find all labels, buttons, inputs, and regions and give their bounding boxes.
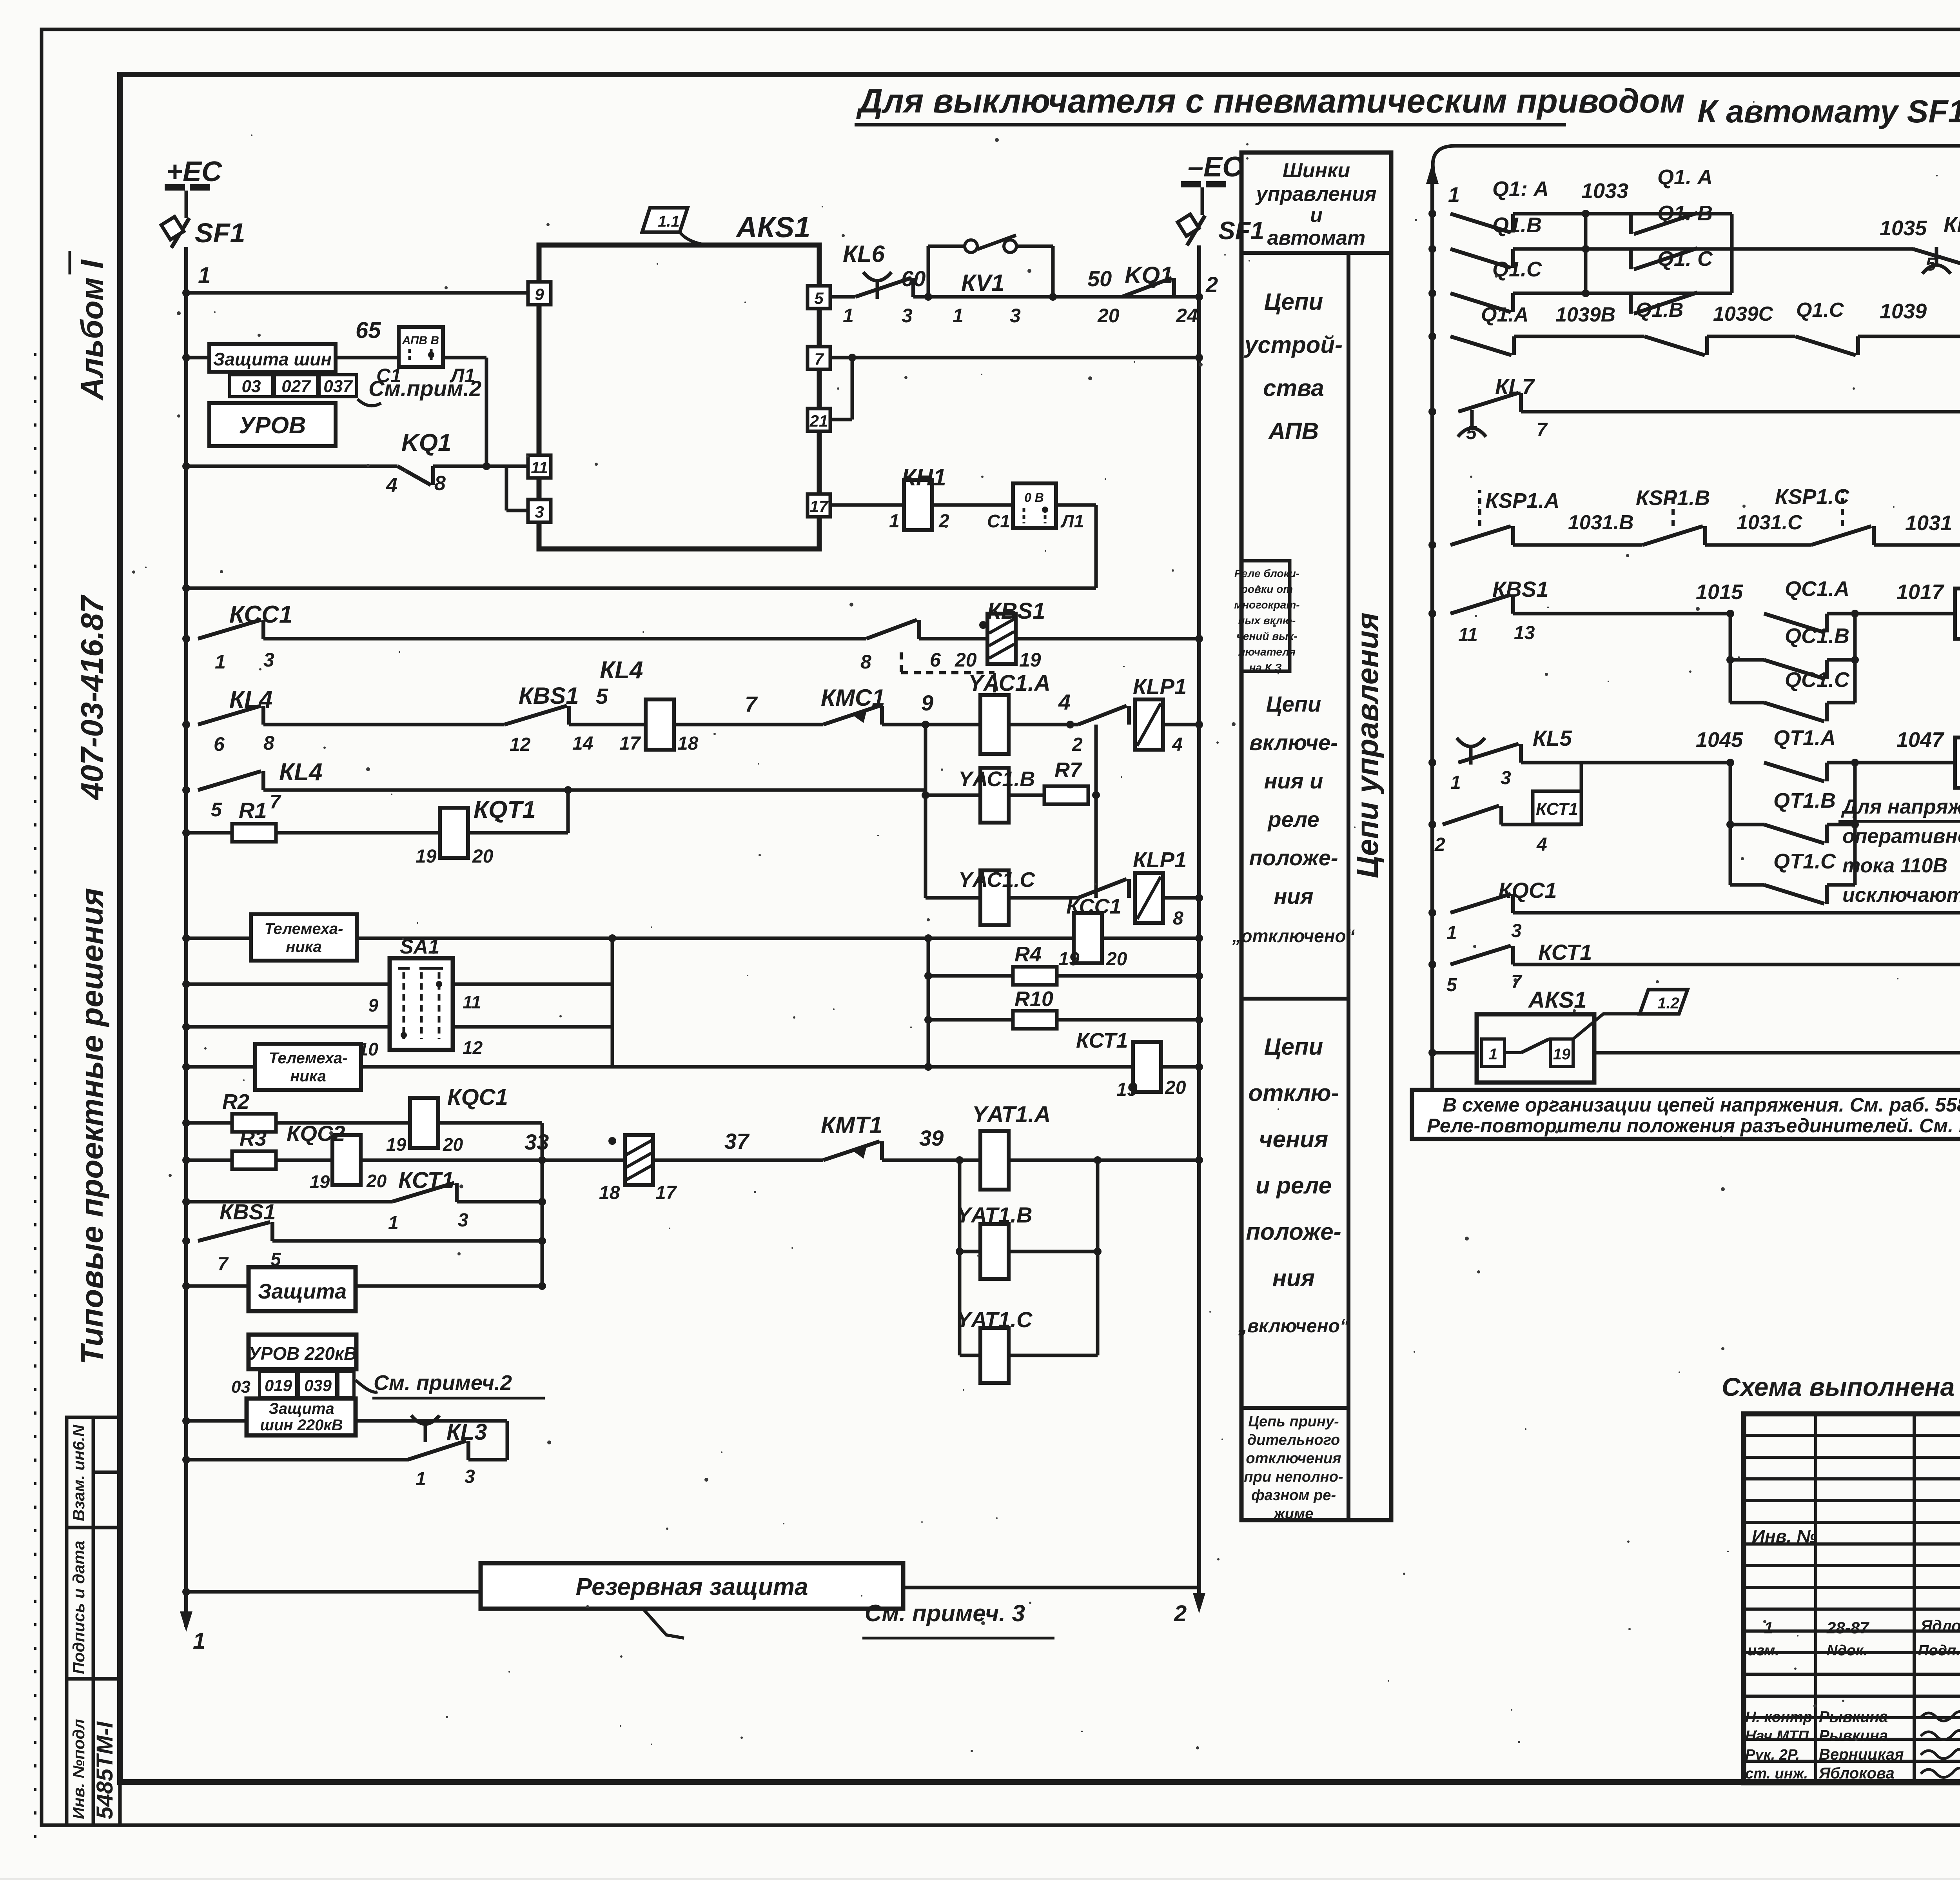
svg-text:Реле блоки-: Реле блоки- <box>1234 567 1299 579</box>
wire 1031 to KLP1 coil <box>1874 543 1960 547</box>
svg-text:реле: реле <box>1267 807 1319 832</box>
contact Q1.B second <box>1631 248 1697 269</box>
svg-text:1: 1 <box>953 305 964 327</box>
svg-text:QС1.С: QС1.С <box>1785 668 1850 692</box>
svg-text:при неполно-: при неполно- <box>1244 1469 1343 1485</box>
signature squiggle 1 <box>1921 1711 1960 1721</box>
closing electromagnet YAC1.C coil <box>980 870 1009 925</box>
AKS1 left pin 11 <box>528 455 551 478</box>
svg-text:1: 1 <box>416 1469 426 1489</box>
branch QC1.B right <box>1827 658 1855 662</box>
contact KSP1.A <box>1450 526 1513 545</box>
svg-text:КВS1: КВS1 <box>220 1199 276 1224</box>
svg-text:2: 2 <box>1205 272 1218 297</box>
svg-text:Q1.В: Q1.В <box>1492 213 1542 237</box>
node rail2015/R1 riser <box>564 786 572 794</box>
tripping electromagnet YAT1.C coil <box>980 1328 1009 1383</box>
-EC bus bottom arrow <box>1193 1593 1205 1613</box>
+EC bus bottom arrow <box>180 1611 192 1632</box>
svg-text:60: 60 <box>901 266 926 291</box>
svg-text:SF1: SF1 <box>195 218 245 248</box>
pressure lock KLP1 coil second <box>1135 873 1163 923</box>
svg-text:С1: С1 <box>376 365 401 387</box>
contact KL7 time <box>1458 393 1521 412</box>
wire rail 3165 <box>272 1239 542 1243</box>
contact QC1.C <box>1764 703 1827 721</box>
branch rail YAT1.C left <box>960 1354 981 1357</box>
wire R2 to KQC1 <box>276 1121 410 1125</box>
node R10 on bus <box>1195 1016 1203 1024</box>
svg-text:5: 5 <box>814 289 824 307</box>
svg-text:21: 21 <box>809 412 828 430</box>
wire to KL4 coil <box>569 723 647 727</box>
svg-text:КL4: КL4 <box>600 657 643 684</box>
divider above Цепь принудительного <box>1241 1406 1348 1410</box>
wire to AKS1 pin 3 <box>506 509 527 512</box>
svg-text:0 В: 0 В <box>1024 490 1044 505</box>
svg-text:11: 11 <box>1458 625 1478 645</box>
svg-text:Альбом I: Альбом I <box>74 259 109 401</box>
svg-text:KQ1: KQ1 <box>1125 262 1173 288</box>
wire pin21 jog <box>830 418 852 421</box>
svg-text:КL3: КL3 <box>446 1419 487 1445</box>
svg-text:1: 1 <box>215 651 226 673</box>
svg-text:и: и <box>1310 204 1323 227</box>
branch rail YAC1.C left <box>926 896 981 900</box>
resistor R4 <box>1013 967 1057 985</box>
svg-text:Телемеха-: Телемеха- <box>269 1050 348 1067</box>
riser QT1 left <box>1729 763 1732 885</box>
wire KCT1 contact to riser <box>457 1200 542 1204</box>
svg-text:R3: R3 <box>240 1127 267 1150</box>
svg-text:фазном ре-: фазном ре- <box>1251 1487 1336 1504</box>
test block SX3 <box>399 327 443 367</box>
wire SX1 loop down <box>1094 505 1098 588</box>
box УРОВ 220кВ <box>249 1335 356 1369</box>
wire rail to AKS1 pin 9 <box>186 291 528 295</box>
svg-text:ст. инж.: ст. инж. <box>1745 1766 1808 1782</box>
flag 1.1 <box>642 208 717 246</box>
underline note 110V <box>1838 820 1960 823</box>
svg-text:КSР1.С: КSР1.С <box>1775 485 1849 509</box>
svg-text:Для напряжения: Для напряжения <box>1841 796 1960 818</box>
wire 1047 <box>1855 761 1956 765</box>
svg-text:ства: ства <box>1263 375 1324 401</box>
svg-text:1: 1 <box>843 305 854 327</box>
branch rail YAC1.B left <box>926 794 981 797</box>
svg-text:QС1.А: QС1.А <box>1785 577 1849 601</box>
wire 1039 part1 <box>1514 335 1644 338</box>
wire 1031.B <box>1513 543 1642 547</box>
svg-text:Q1.В: Q1.В <box>1636 299 1683 322</box>
wire bus to R2 <box>186 1121 232 1125</box>
wire pin21 riser <box>851 358 854 420</box>
wire 1017 <box>1855 612 1956 616</box>
KL5 cup symbol <box>1457 738 1485 765</box>
svg-text:исключаются: исключаются <box>1842 884 1960 906</box>
KL6 time-delay symbol <box>863 272 891 299</box>
svg-text:17: 17 <box>655 1182 677 1203</box>
svg-text:на К.З.: на К.З. <box>1249 661 1285 674</box>
node riser on rail 2959 <box>538 1156 546 1164</box>
svg-text:В схеме организации цепей: В схеме организации цепей напряжения. См… <box>1443 1094 1960 1116</box>
title block grid <box>1744 1414 1960 1783</box>
svg-text:ния: ния <box>1274 884 1313 908</box>
svg-text:Q1.А: Q1.А <box>1481 303 1528 326</box>
svg-text:–ЕС: –ЕС <box>1188 151 1243 183</box>
svg-text:1.2: 1.2 <box>1657 995 1679 1012</box>
svg-text:КМС1: КМС1 <box>821 685 885 711</box>
control switch SA1 <box>390 958 453 1050</box>
closing electromagnet YAC1.A coil <box>980 695 1009 754</box>
resistor R10 <box>1013 1011 1057 1029</box>
svg-text:дительного: дительного <box>1247 1432 1340 1448</box>
svg-text:YАС1.С: YАС1.С <box>958 868 1035 892</box>
test block SX1 <box>1013 483 1056 528</box>
contact Q1.A row1 <box>1450 214 1513 233</box>
svg-text:R1: R1 <box>239 798 267 823</box>
svg-text:18: 18 <box>599 1182 620 1203</box>
svg-text:Для выключателя с пневмати: Для выключателя с пневматическим приводо… <box>856 82 1685 120</box>
svg-text:Схема выполнена на листах: Схема выполнена на листах 39,40,41,42,43… <box>1722 1372 1960 1401</box>
SX3 inner pins <box>408 349 411 363</box>
svg-text:шин 220кВ: шин 220кВ <box>260 1417 343 1434</box>
title block outline <box>1744 1414 1960 1783</box>
svg-text:С1: С1 <box>987 511 1010 531</box>
svg-text:20: 20 <box>955 649 977 671</box>
svg-text:Резервная защита: Резервная защита <box>576 1573 808 1600</box>
svg-text:АКS1: АКS1 <box>1528 987 1586 1013</box>
svg-text:См. примеч. 3: См. примеч. 3 <box>865 1600 1025 1626</box>
svg-text:Инв. №подл: Инв. №подл <box>69 1719 88 1819</box>
contact Q1.C row3 <box>1450 293 1513 312</box>
branch QC1.C left <box>1730 701 1764 705</box>
svg-text:3: 3 <box>1010 305 1021 327</box>
branch rail YAT1.B right <box>1009 1250 1098 1253</box>
signal relay KCC1 coil <box>1074 913 1102 963</box>
svg-text:SА1: SА1 <box>400 935 439 958</box>
leader from 037 to note <box>358 399 381 406</box>
wire KCT1 branch <box>1501 823 1581 826</box>
svg-text:Ядлов: Ядлов <box>1920 1617 1960 1635</box>
blocking relay KBS1 coil 18-17 <box>625 1135 653 1185</box>
svg-text:5485ТМ-I: 5485ТМ-I <box>92 1721 118 1819</box>
svg-text:Рывкина: Рывкина <box>1819 1708 1888 1726</box>
svg-text:Q1.С: Q1.С <box>1492 258 1542 281</box>
wire bus to AKS1 repeater box <box>1432 1051 1477 1055</box>
wire bus to Защита шин box <box>186 356 209 360</box>
svg-text:Л1: Л1 <box>450 365 475 387</box>
svg-text:1031.В: 1031.В <box>1568 511 1634 534</box>
wire to YAC1.A <box>882 723 981 727</box>
wire bus to R1 <box>186 831 232 835</box>
wire Резервная защита to -EC bus <box>903 1586 1199 1589</box>
svg-text:включе-: включе- <box>1249 730 1338 755</box>
left perforation dash line <box>34 353 36 1843</box>
signature squiggle 4 <box>1921 1768 1960 1777</box>
branch riser left YAC group <box>924 725 927 898</box>
svg-text:Л1: Л1 <box>1060 511 1084 531</box>
contact QC1.B <box>1764 660 1827 679</box>
wire YAT1.A to bus <box>1009 1159 1199 1162</box>
svg-text:ника: ника <box>286 938 322 955</box>
relay coil KQT1 <box>440 808 468 858</box>
tripping electromagnet YAT1.B coil <box>980 1224 1009 1279</box>
right-half left bus with arrow <box>1430 172 1434 1090</box>
svg-text:1035: 1035 <box>1880 216 1927 240</box>
svg-text:5: 5 <box>1926 254 1936 275</box>
middle column inner vertical divider <box>1347 253 1350 1520</box>
breaker SF1 (left) <box>161 217 189 248</box>
svg-text:1031: 1031 <box>1905 511 1952 535</box>
svg-text:8: 8 <box>263 732 274 754</box>
AKS1 right pin 7 <box>808 347 830 369</box>
box Защита шин <box>209 344 336 372</box>
contact KBS1 (11-13) <box>1450 595 1513 614</box>
svg-text:1: 1 <box>1448 183 1460 207</box>
contact inside AKS1 box <box>1521 1039 1549 1053</box>
wire bus to KCT1 contact <box>186 1200 392 1204</box>
wire to R4 <box>928 974 1013 978</box>
svg-text:1: 1 <box>193 1628 205 1654</box>
branch QT1.C left <box>1730 883 1764 887</box>
wire R3 to KQC2 <box>276 1159 332 1162</box>
dashed link horizontal <box>901 671 995 674</box>
svg-text:11: 11 <box>463 992 481 1012</box>
pressure lock KLP1 coil <box>1135 699 1163 750</box>
svg-text:17: 17 <box>810 497 829 516</box>
KL7 cup symbol below <box>1458 410 1486 437</box>
svg-text:20: 20 <box>1097 305 1120 327</box>
node riser bottom <box>538 1282 546 1290</box>
svg-text:4: 4 <box>386 474 397 497</box>
svg-text:КН1: КН1 <box>902 464 946 490</box>
contact KCC1 <box>198 620 263 639</box>
contact KL5 time <box>1458 744 1521 763</box>
branch QC1.B left <box>1730 658 1764 662</box>
AKS1 right pin 21 <box>808 409 830 431</box>
node 1015 <box>1726 610 1734 618</box>
bracket line left part to К автомату SF1 <box>1433 146 1901 172</box>
contact KL4 (5-7) <box>198 771 263 790</box>
node SA1 riser on 2393 <box>608 934 616 942</box>
svg-text:50: 50 <box>1087 266 1112 291</box>
svg-text:КQС2: КQС2 <box>287 1121 345 1146</box>
svg-text:19: 19 <box>1116 1079 1138 1100</box>
underline note 2 <box>372 1397 545 1400</box>
wire QT1.A right <box>1827 761 1855 765</box>
svg-text:КSР1.А: КSР1.А <box>1485 489 1559 512</box>
svg-text:См. примеч.2: См. примеч.2 <box>374 1371 512 1395</box>
svg-text:КL7: КL7 <box>1495 374 1535 399</box>
wire Л1 down to KQ1 rail <box>485 358 488 465</box>
wire to 1045 <box>1521 761 1730 765</box>
svg-text:КSР1.В: КSР1.В <box>1636 486 1710 510</box>
contact KSP1.C <box>1811 526 1874 545</box>
svg-text:чений вык-: чений вык- <box>1236 630 1297 642</box>
box Резервная защита <box>481 1563 903 1609</box>
svg-text:3: 3 <box>902 305 913 327</box>
svg-text:чения: чения <box>1259 1126 1328 1152</box>
dot at KBS1 coil <box>979 621 987 629</box>
svg-text:АКS1: АКS1 <box>735 211 810 243</box>
node R10 riser on 2721 <box>924 1063 932 1071</box>
note box В схеме организации <box>1412 1090 1960 1139</box>
svg-text:1039: 1039 <box>1880 300 1927 323</box>
wire rail 1629 left part <box>263 637 866 641</box>
svg-text:КСТ1: КСТ1 <box>1538 940 1592 965</box>
svg-text:3: 3 <box>1511 921 1522 941</box>
contact Q1.C second <box>1631 292 1697 314</box>
resistor R1 <box>232 824 276 842</box>
+EC battery bars <box>165 184 185 191</box>
wire +EC to SF1 <box>185 191 188 218</box>
resistor R3 <box>232 1151 276 1169</box>
svg-text:3: 3 <box>1501 768 1511 788</box>
wire to R10 <box>928 1018 1013 1022</box>
AKS1 left pin 3 <box>528 500 551 522</box>
node junction Л1/KQ1 rail <box>483 462 490 470</box>
wire R10 to bus <box>1057 1018 1199 1022</box>
svg-text:1: 1 <box>1489 1046 1497 1063</box>
svg-text:1015: 1015 <box>1696 580 1743 604</box>
svg-text:24: 24 <box>1176 305 1198 327</box>
wire -EC stub <box>1201 187 1204 215</box>
svg-text:KQ1: KQ1 <box>401 429 451 456</box>
wire return rail 1500 <box>186 587 1096 590</box>
wire bus to Резервная защита <box>186 1590 481 1594</box>
contact Q1.C on 1039 rail <box>1795 336 1858 355</box>
contact KQC1 (1-3) <box>1450 894 1513 913</box>
underline note 3 <box>862 1637 1054 1640</box>
wire KQC2 to KBS1 coil <box>361 1159 624 1162</box>
boxed label KCT1 <box>1533 791 1581 824</box>
contact KQ1 (4-8) <box>397 466 433 485</box>
svg-text:+ЕС: +ЕС <box>166 156 222 187</box>
wire rail 3280 <box>186 1284 542 1288</box>
svg-text:Инв. №: Инв. № <box>1752 1526 1817 1546</box>
contact KCT1 (1-3) <box>392 1183 457 1202</box>
wire rail 1848 part1 <box>263 723 505 727</box>
wire SA1 top to riser <box>453 983 612 986</box>
svg-text:положе-: положе- <box>1246 1219 1341 1245</box>
wire KLP1 second to bus <box>1163 896 1199 900</box>
branch QT1.C right <box>1827 883 1855 887</box>
svg-text:20: 20 <box>366 1171 387 1191</box>
svg-text:28-87: 28-87 <box>1826 1618 1869 1637</box>
svg-text:YАТ1.А: YАТ1.А <box>972 1102 1051 1127</box>
breaker SF1 (right) <box>1178 214 1205 245</box>
svg-text:оперативного: оперативного <box>1842 825 1960 848</box>
svg-text:1: 1 <box>388 1213 399 1233</box>
-EC battery bars <box>1181 181 1201 187</box>
node right YAT riser <box>1094 1156 1102 1164</box>
svg-text:20: 20 <box>1165 1077 1186 1098</box>
svg-text:2: 2 <box>1174 1601 1187 1626</box>
svg-text:5: 5 <box>1466 423 1477 443</box>
divider below Шинки box <box>1241 251 1391 255</box>
wire KL4 coil to KMC1 contact <box>674 723 823 727</box>
contact KBS1 (7-5) <box>198 1222 272 1241</box>
svg-text:7: 7 <box>745 692 758 716</box>
AKS1 left pin 9 <box>528 282 551 305</box>
svg-text:КСТ1: КСТ1 <box>398 1168 454 1193</box>
contact KSP1.B <box>1642 526 1705 545</box>
wire KQT1 to riser <box>468 831 568 835</box>
-EC vertical bus <box>1197 245 1201 1608</box>
wire rail 2393 Телемеханика-1 <box>186 937 1199 940</box>
dashed stem KSP1.C <box>1841 490 1844 526</box>
node 1045 <box>1726 759 1734 767</box>
contact KL6 time <box>1913 249 1960 268</box>
wire pin7 rail to -EC bus <box>830 356 1199 360</box>
svg-text:и реле: и реле <box>1256 1172 1332 1199</box>
svg-text:Реле-повторители положения р: Реле-повторители положения разъединителе… <box>1427 1115 1960 1137</box>
wire Защита шин 220кВ to riser <box>356 1419 507 1423</box>
svg-text:1045: 1045 <box>1696 728 1743 752</box>
node rail757 on -EC bus <box>1195 293 1203 301</box>
svg-text:Подп.: Подп. <box>1918 1642 1960 1659</box>
underline of I in Альбом I (rotated) <box>69 251 71 274</box>
wire KH1 to SX1 <box>932 503 1013 507</box>
svg-text:Q1. В: Q1. В <box>1657 202 1713 225</box>
signature squiggle 3 <box>1921 1749 1960 1758</box>
+EC vertical bus <box>184 247 188 1627</box>
svg-text:„включено“: „включено“ <box>1238 1316 1349 1337</box>
svg-text:039: 039 <box>304 1376 332 1395</box>
AKS1 right pin 17 <box>808 494 830 517</box>
svg-text:КL5: КL5 <box>1533 726 1572 750</box>
svg-text:КQС1: КQС1 <box>1498 878 1557 903</box>
box Телемеханика 2 <box>255 1044 361 1090</box>
wire rail 757 to -EC bus <box>913 295 1199 299</box>
svg-text:QТ1.В: QТ1.В <box>1773 789 1836 812</box>
svg-text:УРОВ 220кВ: УРОВ 220кВ <box>249 1343 357 1364</box>
dot at KBS1 coil 2 <box>608 1137 616 1145</box>
wire KMT1 to YAT1.A <box>882 1159 981 1162</box>
position relay KQC2 coil <box>332 1135 361 1185</box>
svg-text:КL4: КL4 <box>279 759 322 786</box>
wire Защита шин to SX3/Л1 <box>336 356 486 360</box>
wire rail 2328 <box>1513 911 1960 915</box>
closing electromagnet YAC1.B coil <box>980 768 1009 823</box>
repeater AKS1 box <box>1477 1014 1594 1083</box>
AKS1 pin 19 <box>1550 1039 1573 1066</box>
wire 1035 rail <box>1732 247 1913 251</box>
middle legend column outline <box>1241 153 1391 1520</box>
svg-text:19: 19 <box>386 1134 407 1155</box>
svg-text:ника: ника <box>290 1068 326 1085</box>
wire bus to contact KQ1 <box>186 465 397 468</box>
svg-text:ных вклю-: ных вклю- <box>1238 614 1296 627</box>
boxes 019 039 <box>260 1371 354 1397</box>
svg-text:R7: R7 <box>1054 758 1083 782</box>
svg-text:КL6: КL6 <box>1944 212 1960 237</box>
svg-text:КQС1: КQС1 <box>447 1084 508 1110</box>
svg-text:отключения: отключения <box>1246 1450 1341 1467</box>
svg-text:Защита: Защита <box>269 1400 334 1417</box>
contact Q1.B row2 <box>1450 249 1513 268</box>
svg-text:03: 03 <box>231 1377 250 1397</box>
svg-text:КСТ1: КСТ1 <box>1076 1029 1128 1052</box>
wire rail 2721 Телемеханика-2 <box>186 1065 1134 1069</box>
branch rail YAT1.B left <box>960 1250 981 1253</box>
svg-text:407-03-416.87: 407-03-416.87 <box>74 594 109 801</box>
wire R1 to KQT1 <box>276 831 440 835</box>
leader to note 2 <box>356 1380 377 1392</box>
svg-text:R10: R10 <box>1014 987 1053 1011</box>
svg-text:1039В: 1039В <box>1555 303 1615 326</box>
